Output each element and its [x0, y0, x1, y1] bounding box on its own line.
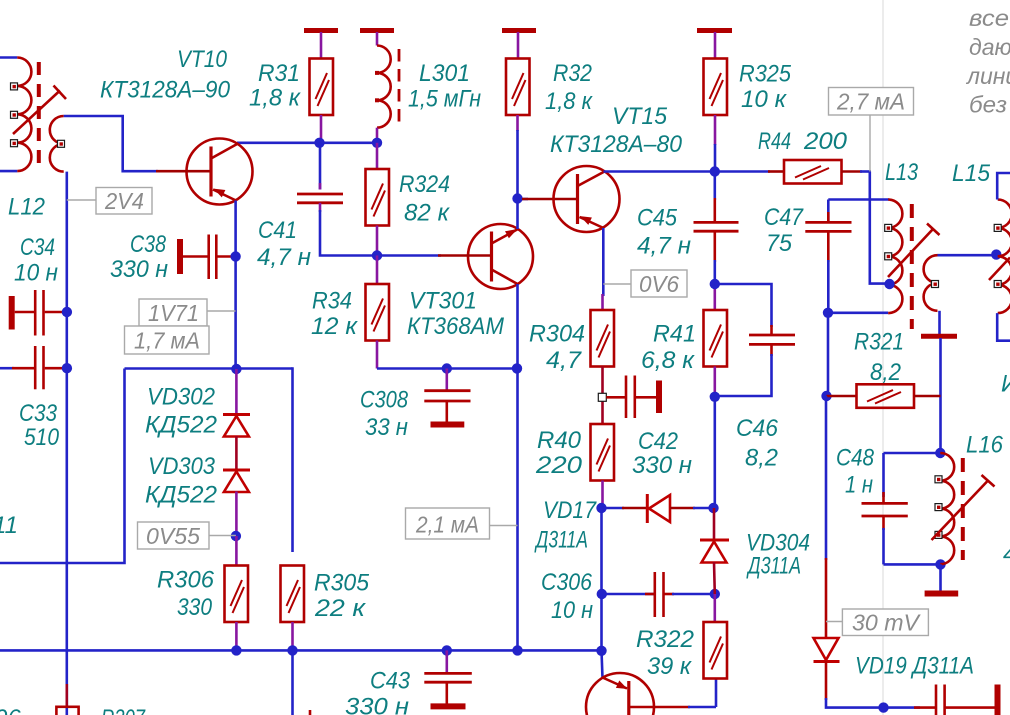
diode VD304 — [713, 508, 716, 540]
svg-text:без: без — [969, 92, 1007, 118]
SEC-CASCODE — [518, 166, 796, 715]
measure line 0V55 — [209, 535, 236, 537]
resistor R304 — [591, 310, 615, 367]
svg-text:330: 330 — [177, 594, 213, 621]
wire VT15 base — [518, 198, 529, 201]
wire C47 node down — [827, 313, 830, 396]
svg-text:R32: R32 — [553, 60, 592, 87]
lead R304 bottom with tap — [601, 367, 604, 425]
svg-text:C43: C43 — [370, 668, 411, 695]
svg-text:L13: L13 — [885, 159, 919, 186]
resistor R305 — [281, 566, 305, 623]
lead R305 bottom — [291, 622, 294, 650]
wire R305 below bus — [291, 650, 294, 715]
tap square L12 p2 — [11, 111, 18, 118]
diode VD19 — [814, 638, 839, 660]
capacitor C38 terminal bar — [177, 239, 183, 274]
svg-text:R34: R34 — [312, 288, 352, 315]
lead R34 bottom — [376, 341, 379, 369]
capacitor C41 — [297, 193, 343, 196]
VT15 base lead — [522, 198, 578, 201]
page fold line — [882, 0, 884, 715]
wire R41 node down — [713, 397, 716, 508]
resistor R322 — [704, 622, 728, 679]
lead R324 bottom — [376, 226, 379, 256]
svg-text:L301: L301 — [419, 60, 470, 87]
core L13 dashed — [910, 204, 914, 329]
lead R40 bottom — [601, 481, 604, 509]
VT301 base bar — [490, 232, 493, 282]
inductor L301 — [377, 46, 391, 128]
svg-text:R41: R41 — [653, 321, 696, 348]
svg-text:75: 75 — [766, 230, 793, 257]
node dot C306 right — [710, 589, 720, 599]
svg-text:КД522: КД522 — [145, 412, 217, 439]
lead R325 bottom — [714, 115, 717, 145]
lead R41 bottom — [713, 367, 716, 398]
node dot C43 bus — [442, 645, 452, 655]
svg-text:И: И — [1001, 371, 1010, 398]
svg-text:VD303: VD303 — [148, 453, 216, 480]
capacitor C47 — [805, 221, 851, 224]
svg-text:R306: R306 — [157, 567, 215, 594]
lead L301 top — [376, 32, 379, 46]
wire VT15 collector to R44 — [604, 170, 771, 173]
wire L12 primary top to left edge — [0, 56, 17, 59]
tap square L13 p1 — [885, 224, 892, 231]
wire VD19 top — [825, 396, 828, 560]
resistor R32 — [506, 59, 530, 116]
svg-text:VD17: VD17 — [543, 497, 597, 524]
VT15 emitter arrow — [580, 216, 592, 225]
svg-text:дают: дают — [969, 34, 1010, 60]
resistor R34 — [366, 284, 390, 341]
lead R31 bottom — [320, 115, 323, 143]
svg-text:82 к: 82 к — [404, 200, 451, 227]
wire VD303 to node — [235, 492, 238, 537]
svg-text:1,8 к: 1,8 к — [249, 85, 302, 112]
lead R32 bottom — [516, 115, 519, 131]
variable core arrow L16 — [932, 481, 989, 541]
wire VT301 emitter down — [516, 284, 519, 650]
svg-text:2,7 мА: 2,7 мА — [836, 89, 905, 115]
svg-text:R31: R31 — [258, 60, 300, 87]
svg-text:11: 11 — [0, 512, 18, 539]
supply rail bar 2 — [360, 28, 394, 33]
svg-text:VT15: VT15 — [612, 103, 668, 130]
svg-text:Д311А: Д311А — [746, 553, 801, 580]
wire C48 top — [884, 452, 941, 455]
core L301 dashed — [398, 49, 401, 126]
resistor R44 — [768, 170, 784, 173]
svg-text:30 mV: 30 mV — [852, 610, 922, 636]
wire L15 bottom — [997, 313, 1010, 341]
lead R41 top — [713, 284, 716, 311]
svg-text:C45: C45 — [637, 205, 678, 232]
lead R324 top — [376, 143, 379, 170]
VT10 base lead — [156, 170, 211, 173]
svg-text:R324: R324 — [399, 171, 450, 198]
measure line 2,1 mA — [490, 525, 518, 527]
svg-text:39 к: 39 к — [647, 653, 693, 680]
svg-text:Д311А: Д311А — [534, 527, 588, 554]
inductor L16 winding — [940, 453, 954, 564]
VT302 emitter arrow — [616, 681, 628, 690]
transistor VT10 circle — [187, 139, 253, 205]
svg-text:КД522: КД522 — [145, 482, 217, 509]
resistor R40 — [591, 424, 615, 481]
node dot R31/C41 — [314, 138, 324, 148]
wire VD17 node down — [600, 508, 603, 594]
svg-text:VD19 Д311А: VD19 Д311А — [855, 653, 974, 680]
svg-text:1V71: 1V71 — [148, 300, 199, 326]
svg-text:12 к: 12 к — [311, 313, 359, 340]
svg-text:C47: C47 — [764, 204, 804, 231]
transistor VT302 circle — [586, 673, 654, 715]
lead C48 top — [882, 453, 885, 497]
svg-text:4: 4 — [1003, 541, 1010, 568]
capacitor C42 terminal bar — [656, 381, 662, 414]
tap square L12 p1 — [11, 83, 18, 90]
lead R306 top — [235, 536, 238, 566]
node dot R325/R44 — [710, 166, 720, 176]
node dot L15 tap — [991, 249, 1001, 259]
svg-text:10 к: 10 к — [741, 86, 788, 113]
SEC-MIDCOL — [0, 143, 603, 715]
SEC-L12 — [0, 58, 158, 715]
measure box 30 mV — [842, 609, 928, 636]
resistor R321 — [827, 395, 857, 398]
measure box 2V4 — [96, 188, 152, 215]
measure line 1V71 — [207, 310, 236, 312]
node dot base VT301 — [372, 250, 382, 260]
component R307 fragment bottom — [66, 684, 69, 707]
lead C41 bottom — [319, 203, 322, 212]
svg-text:C34: C34 — [20, 234, 55, 261]
resistor R325 — [704, 59, 728, 116]
variable core arrow L12 — [13, 91, 60, 135]
svg-text:R325: R325 — [739, 61, 792, 88]
diode VD303 — [223, 469, 250, 472]
ground bar L13 — [921, 334, 957, 339]
svg-text:VT301: VT301 — [409, 288, 477, 315]
wire VD19 bottom — [825, 661, 828, 700]
lead R34 top — [376, 256, 379, 285]
lead C41 top — [319, 143, 322, 190]
wire L12 primary bottom to left edge — [0, 170, 17, 173]
diode VD303 link — [235, 436, 238, 471]
variable core arrow L13 — [888, 229, 933, 277]
svg-text:R44: R44 — [758, 128, 791, 155]
svg-text:2V4: 2V4 — [104, 188, 144, 214]
measure box 2,7 mA — [829, 88, 914, 116]
lead R322 top — [713, 594, 716, 623]
svg-text:33 н: 33 н — [365, 414, 408, 441]
svg-text:4,7: 4,7 — [546, 347, 583, 374]
svg-text:VD302: VD302 — [147, 384, 215, 411]
tap square L12 s1 — [58, 140, 65, 147]
wire top bus right part — [377, 367, 518, 370]
node dot VD17 left — [596, 503, 606, 513]
lead C45 bottom — [713, 231, 716, 262]
wire top bus left part — [125, 367, 293, 370]
wire R44 down to L13 tap — [870, 172, 890, 284]
node dot C47 bottom — [823, 308, 833, 318]
svg-text:C48: C48 — [836, 445, 875, 472]
measure line 2,7 mA — [869, 115, 871, 172]
capacitor C306 — [602, 593, 655, 596]
resistor R31 — [310, 59, 334, 116]
svg-text:200: 200 — [803, 128, 848, 155]
lead C308 bottom — [445, 401, 448, 422]
wire to VT302 emitter — [602, 651, 603, 678]
lead C47 bottom — [827, 231, 830, 262]
capacitor C34 terminal bar — [9, 296, 15, 330]
lead C43 bottom — [445, 682, 448, 704]
svg-text:330 н: 330 н — [632, 452, 692, 479]
supply rail bar 4 — [697, 28, 732, 33]
wire ground to R321 right — [939, 338, 942, 453]
tap square L16 3 — [935, 531, 942, 538]
resistor R306 — [225, 566, 249, 623]
resistor R324 — [366, 169, 390, 226]
transistor VT301 circle — [468, 224, 533, 289]
svg-text:C41: C41 — [258, 217, 297, 244]
core L16 dashed — [961, 458, 965, 560]
diode VD302 — [235, 369, 238, 416]
svg-text:0V55: 0V55 — [146, 523, 200, 549]
wire L13 bottom terminal — [828, 311, 888, 314]
svg-text:КТ3128А–80: КТ3128А–80 — [550, 131, 683, 158]
capacitor C48 — [862, 502, 908, 505]
wire VT10 emitter down — [234, 201, 237, 370]
svg-text:R304: R304 — [529, 321, 585, 348]
node dot R321 left — [821, 391, 831, 401]
wire collector rail VT10 — [237, 142, 377, 145]
transistor VT15 circle — [554, 166, 620, 232]
lead L301 bottom — [376, 128, 379, 143]
svg-text:510: 510 — [24, 424, 60, 451]
svg-text:330 н: 330 н — [345, 694, 409, 715]
node dot L16 bottom — [935, 559, 945, 569]
wire L12 secondary bottom down — [66, 172, 69, 715]
wire down to lower bus — [0, 369, 125, 564]
VT15 emitter — [580, 217, 604, 228]
svg-text:C46: C46 — [736, 415, 779, 442]
VT302 base lead — [629, 706, 690, 709]
capacitor C33 — [0, 367, 14, 370]
svg-text:C308: C308 — [360, 387, 409, 414]
node dot 0V55 — [231, 531, 241, 541]
svg-text:R40: R40 — [537, 427, 582, 454]
VT302 emitter — [603, 678, 628, 689]
node dot C48 top — [935, 448, 945, 458]
svg-text:R305: R305 — [314, 570, 370, 597]
tap square L16 2 — [935, 504, 942, 511]
svg-text:330 н: 330 н — [110, 256, 168, 283]
VT301 emitter arrow — [505, 229, 518, 238]
svg-text:220: 220 — [535, 452, 583, 479]
svg-text:22 к: 22 к — [314, 595, 367, 622]
capacitor C320 bottom — [884, 706, 921, 709]
svg-text:8,2: 8,2 — [745, 445, 778, 472]
inductor L13 secondary — [924, 255, 938, 311]
svg-text:VT10: VT10 — [177, 46, 228, 73]
wire C41 to base node — [320, 210, 377, 256]
svg-text:C38: C38 — [130, 231, 167, 258]
lead R32 top — [517, 32, 520, 59]
node dot C306 left — [597, 589, 607, 599]
wire R32 to VT15 base node — [516, 130, 519, 199]
svg-text:L15: L15 — [952, 160, 991, 187]
lead R304 top — [601, 294, 604, 311]
lead C45 top — [713, 172, 716, 201]
variable core arrow L15 — [989, 258, 1010, 281]
svg-text:2,1 мА: 2,1 мА — [415, 512, 479, 538]
capacitor C38 — [183, 255, 208, 258]
VT10 collector — [211, 144, 238, 159]
node dot VD17 right — [708, 503, 718, 513]
svg-text:C42: C42 — [638, 428, 678, 455]
svg-text:6,8 к: 6,8 к — [641, 347, 696, 374]
lead R306 bottom — [235, 622, 238, 650]
wire L13 sec bottom to ground — [938, 311, 941, 334]
svg-text:8,2: 8,2 — [870, 359, 901, 386]
node dot C45 top — [710, 279, 720, 289]
lead C308 top — [445, 369, 448, 392]
svg-text:L16: L16 — [966, 432, 1004, 459]
supply rail bar 3 — [502, 28, 536, 33]
svg-text:C33: C33 — [19, 400, 58, 427]
lead R325 top — [714, 32, 717, 59]
tap square C42 — [598, 393, 606, 401]
svg-text:0V6: 0V6 — [639, 271, 679, 297]
SEC-RIGHT — [768, 88, 1010, 715]
svg-text:R307: R307 — [101, 705, 146, 715]
inductor L12 primary winding — [17, 58, 31, 172]
ground bar C308 — [431, 422, 465, 428]
node dot C34 — [62, 307, 72, 317]
wire C47 top — [828, 198, 889, 201]
svg-text:1,8 к: 1,8 к — [545, 88, 594, 115]
tap square L15 2 — [994, 281, 1001, 288]
measure box 2,1 mA — [406, 508, 490, 539]
node dot R305 bus — [287, 645, 297, 655]
node dot bottom right — [878, 702, 888, 712]
svg-text:C306: C306 — [541, 569, 593, 596]
svg-text:1 н: 1 н — [845, 472, 873, 499]
wire L15 top — [997, 173, 1010, 200]
node dot R32/VT15 — [512, 193, 522, 203]
wire L16 to ground — [939, 564, 942, 591]
lead C46 bottom — [770, 344, 773, 356]
resistor R41 — [704, 310, 728, 367]
wire VT15 emitter down — [602, 228, 605, 296]
diode VD17 — [602, 507, 625, 510]
wire VT301 collector up — [516, 199, 519, 230]
wire L12 secondary top to VT10 base — [64, 116, 158, 171]
measure box 1V71 — [139, 299, 207, 326]
measure line 2V4 — [67, 199, 96, 201]
node dot emitter bus — [512, 645, 522, 655]
svg-text:все: все — [969, 5, 1009, 31]
tap square L13 s1 — [932, 281, 939, 288]
node dot bus VT302 — [596, 646, 606, 656]
VT10 emitter — [213, 190, 236, 201]
node dot R41 bottom — [710, 392, 720, 402]
VT301 base lead — [438, 254, 492, 257]
node dot L13 tap — [884, 279, 894, 289]
wire R305 top feed — [291, 367, 294, 552]
lead R44 right — [842, 170, 863, 173]
svg-text:10 н: 10 н — [551, 597, 593, 624]
VT302 base bar — [627, 681, 630, 715]
inductor L15 winding — [998, 200, 1010, 314]
capacitor C308 — [424, 389, 470, 392]
wire C48 bottom to L16 — [884, 563, 941, 566]
ground bar L16 — [925, 591, 959, 597]
wire L13 sec top to L15 — [938, 254, 997, 257]
inductor L12 secondary winding — [50, 116, 64, 172]
measure box 0V55 — [138, 522, 210, 549]
wire base node to VT301 — [377, 254, 441, 257]
measure box 1,7 mA — [125, 326, 210, 354]
node dot diode chain top — [231, 364, 241, 374]
node dot R306 bus — [231, 645, 241, 655]
lead C48 bottom — [882, 516, 885, 530]
VT10 emitter arrow — [214, 189, 226, 198]
VT301 emitter up — [492, 229, 519, 244]
VT10 base bar — [209, 147, 212, 197]
svg-text:КТ3128А–90: КТ3128А–90 — [100, 77, 231, 104]
capacitor C45 — [694, 221, 739, 224]
svg-text:06: 06 — [0, 705, 21, 715]
capacitor C43 — [424, 672, 472, 675]
lead C43 top — [445, 650, 448, 673]
svg-text:линии: линии — [965, 63, 1010, 89]
node dot L301/R324 — [372, 138, 382, 148]
svg-text:КТ368АМ: КТ368АМ — [407, 313, 504, 340]
measure line 0V6 — [603, 283, 631, 285]
svg-text:1,5 мГн: 1,5 мГн — [408, 86, 481, 113]
lead C47 top — [827, 200, 830, 223]
small red fragment bottom — [309, 710, 312, 715]
capacitor C46 — [749, 334, 795, 337]
svg-text:R322: R322 — [636, 626, 694, 653]
svg-text:10 н: 10 н — [14, 260, 58, 287]
inductor L13 primary — [888, 200, 902, 314]
measure line 30 mV — [826, 621, 842, 623]
VT15 collector — [578, 172, 605, 187]
node dot C308 — [442, 363, 452, 373]
main bottom bus — [0, 649, 603, 652]
svg-text:4,7 н: 4,7 н — [637, 233, 691, 260]
SEC-VT10 — [125, 139, 253, 370]
VT301 collector down — [492, 270, 518, 285]
tap square L13 p2 — [885, 253, 892, 260]
node dot VT301 emitter bus — [512, 363, 522, 373]
tap square L15 1 — [994, 224, 1001, 231]
wire base to R322 — [715, 679, 718, 707]
capacitor C42 — [606, 396, 625, 399]
VT15 base bar — [576, 174, 579, 224]
measure box 0V6 — [631, 270, 687, 297]
svg-text:1,7 мА: 1,7 мА — [134, 328, 200, 354]
supply rail bar 1 — [304, 28, 338, 33]
svg-text:R321: R321 — [854, 329, 904, 356]
wire C306 node down to bus — [600, 594, 603, 651]
node dot C33 — [62, 363, 72, 373]
